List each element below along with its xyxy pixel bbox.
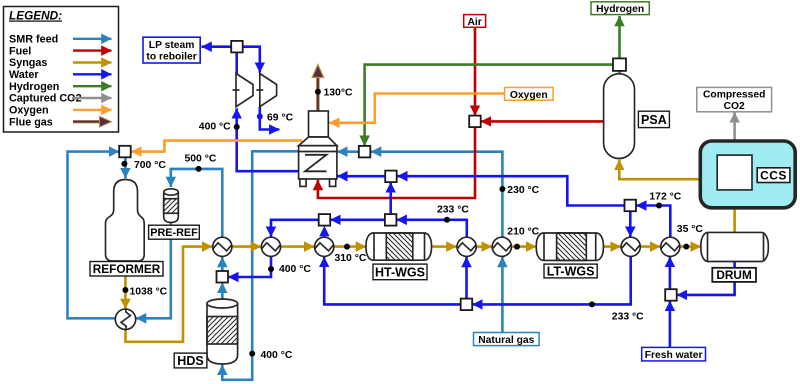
svg-text:Flue gas: Flue gas [9, 116, 53, 128]
SQUARES [119, 41, 677, 310]
node 230C [499, 186, 505, 192]
mid arrow into H2 join square [371, 146, 382, 157]
wire drum bottom to FW square [677, 262, 735, 295]
svg-text:Syngas: Syngas [9, 57, 47, 69]
svg-text:Hydrogen: Hydrogen [9, 81, 59, 93]
svg-text:PRE-REF: PRE-REF [150, 227, 198, 239]
mid arrow into square C [397, 171, 408, 182]
svg-text:230 °C: 230 °C [507, 185, 539, 196]
heat exchanger HXg below reformer [115, 309, 135, 329]
heat exchanger HX2 [261, 237, 280, 256]
heat exchanger HXf [661, 237, 680, 256]
temperature texts [130, 87, 704, 361]
DRUM vessel [701, 232, 768, 261]
wire NG up through 230C to furnace inlet [337, 152, 502, 237]
wire mix square to HX1 [221, 257, 224, 271]
node square B [385, 214, 397, 226]
heat exchanger HXc [457, 237, 476, 256]
wire air down to mix square [474, 28, 477, 116]
svg-text:130°C: 130°C [324, 87, 353, 98]
svg-text:LP steam: LP steam [149, 40, 195, 51]
PSA vessel [604, 74, 635, 159]
node square 172C [625, 200, 637, 212]
wire HXg left up to 700C square [68, 152, 120, 319]
wire HXc top to square B [397, 220, 467, 237]
wire turbine2 out 69C [260, 107, 280, 130]
node 700C [121, 161, 127, 167]
svg-text:Captured CO2: Captured CO2 [9, 93, 82, 105]
wire reformer outlet to HXg [124, 261, 127, 309]
HDS vessel [207, 304, 238, 365]
svg-text:310 °C: 310 °C [335, 253, 367, 264]
svg-text:35 °C: 35 °C [677, 224, 704, 235]
furnace foot right [330, 179, 336, 186]
wire boiler steam out to turbine1 [237, 108, 299, 171]
node 69C blue [257, 114, 263, 120]
svg-text:LT-WGS: LT-WGS [547, 264, 595, 278]
node square steam-feed mix [217, 271, 229, 283]
svg-text:700 °C: 700 °C [134, 160, 166, 171]
node square feed-oxygen mix 700C [119, 146, 131, 158]
label HDS [174, 353, 207, 368]
wire HX2 bottom to mix square [228, 257, 271, 277]
svg-text:Natural gas: Natural gas [478, 335, 534, 346]
svg-text:400 °C: 400 °C [279, 264, 311, 275]
svg-text:PSA: PSA [641, 113, 667, 127]
label Hydrogen [591, 2, 649, 15]
wire HDS top to mix square [221, 283, 224, 300]
wire HX1 to HX2 [232, 245, 261, 248]
node 400C blowdown [268, 266, 274, 272]
reformer vessel [106, 180, 145, 262]
furnace foot left [300, 179, 306, 186]
legend arrow Syngas [73, 61, 112, 63]
wire oxygen to 700C square [131, 141, 302, 152]
wire HXe bottom 233C to water square [472, 257, 630, 305]
wire HXd to LT-WGS [512, 245, 537, 248]
wire DRUM top to CCS [733, 190, 736, 232]
wire fresh water to FW square [669, 301, 672, 348]
wire HXg to HX1 syngas [126, 247, 213, 342]
node square 233C water split [461, 299, 473, 311]
wire flue gas up from stack [316, 77, 320, 111]
furnace stack [309, 111, 329, 137]
svg-text:69 °C: 69 °C [267, 112, 294, 123]
wire natural gas to HXd [501, 257, 504, 333]
wire PSA top to hydrogen square [618, 71, 621, 74]
wire 172C square down to HXe [629, 211, 632, 237]
svg-text:Compressed: Compressed [703, 90, 765, 101]
svg-text:172 °C: 172 °C [649, 192, 681, 203]
furnace coil Z [305, 155, 327, 172]
node 400C steam [234, 124, 240, 130]
svg-text:Fresh water: Fresh water [645, 350, 703, 361]
svg-text:REFORMER: REFORMER [93, 262, 161, 276]
wire HX2 to HX3 [281, 245, 314, 248]
label LT-WGS [544, 264, 597, 278]
pre-reformer vessel [164, 192, 179, 222]
label PRE-REF [149, 225, 200, 239]
node square air-fuel mix [469, 116, 481, 128]
wire HXe to HXf [641, 245, 661, 248]
wire fuel to furnace bottom [318, 127, 475, 198]
node 400C HDS feed [249, 351, 255, 357]
svg-text:Air: Air [467, 17, 481, 28]
svg-text:SMR feed: SMR feed [9, 34, 58, 46]
wire LP square to LP steam box [202, 45, 232, 48]
heat exchanger HXd [492, 237, 511, 256]
node 233C lower [589, 301, 595, 307]
wire CCS to compressed CO2 [733, 112, 736, 155]
svg-text:LEGEND:: LEGEND: [9, 9, 62, 23]
node square hydrogen split [613, 58, 626, 71]
wire hydrogen recycle to H2 square [365, 65, 613, 146]
svg-text:to reboiler: to reboiler [146, 52, 196, 63]
svg-text:400 °C: 400 °C [199, 122, 231, 133]
LEGEND [4, 7, 119, 133]
legend arrow Oxygen [73, 109, 112, 111]
furnace body [299, 146, 337, 179]
svg-text:DRUM: DRUM [716, 268, 752, 282]
LT-WGS vessel [536, 233, 603, 260]
svg-text:CCS: CCS [760, 169, 787, 183]
wire LT-WGS to HXe [603, 245, 620, 248]
node square fresh water join [665, 289, 677, 301]
turbine T2 [260, 74, 277, 107]
node square LP steam split [231, 41, 243, 53]
CCS unit [700, 141, 795, 208]
HT-WGS vessel [366, 233, 432, 260]
legend box [4, 7, 119, 133]
wire PRE-REF down to HXg [136, 222, 171, 318]
node 1038C [122, 287, 128, 293]
svg-text:500 °C: 500 °C [185, 153, 217, 164]
node square C boiler feed [385, 171, 397, 183]
label HT-WGS [373, 264, 427, 280]
furnace hood trapezoid [299, 137, 337, 146]
node 35C [683, 244, 689, 250]
svg-text:Fuel: Fuel [9, 45, 31, 57]
label LP steam to reboiler [143, 37, 200, 63]
label Compressed CO2 [697, 87, 772, 112]
svg-text:233 °C: 233 °C [612, 311, 644, 322]
wire PSA purge to air square [481, 120, 604, 123]
label REFORMER [90, 262, 163, 277]
node 233C upper [444, 217, 450, 223]
legend arrow Captured CO2 [72, 97, 112, 99]
wire HXf to DRUM [680, 245, 701, 248]
svg-text:CO2: CO2 [724, 101, 745, 112]
heat exchanger HX3 [315, 237, 334, 256]
wire hydrogen square to hydrogen box [618, 16, 621, 58]
svg-text:Water: Water [9, 69, 39, 81]
svg-text:1038 °C: 1038 °C [130, 286, 168, 297]
svg-text:Hydrogen: Hydrogen [596, 4, 644, 15]
node square A [319, 214, 331, 226]
legend arrow Flue gas [73, 120, 100, 123]
svg-text:210 °C: 210 °C [507, 227, 539, 238]
node 210C [514, 244, 520, 250]
svg-text:400 °C: 400 °C [261, 350, 293, 361]
node 310C [344, 244, 350, 250]
svg-text:HDS: HDS [177, 354, 203, 368]
wire HX3 to HT-WGS [334, 245, 366, 248]
wire square A to HX2 top [271, 220, 319, 237]
wire LP square to turbine2 [243, 47, 260, 73]
wire oxygen to furnace stack [329, 94, 504, 123]
wire 700C square down to reformer [124, 157, 127, 178]
wire HX3 top to square A [323, 236, 326, 239]
legend arrow Water [73, 73, 112, 75]
svg-text:233 °C: 233 °C [437, 204, 469, 215]
wire CCS to PSA bottom [619, 160, 717, 179]
heat exchanger HXe [621, 237, 640, 256]
label Fresh water [642, 347, 706, 361]
wire FW square to HXf [669, 257, 672, 290]
wire water square to HX3 bottom [324, 257, 461, 305]
svg-text:HT-WGS: HT-WGS [375, 266, 425, 280]
label PSA [638, 111, 669, 127]
heat exchanger HX1 [213, 237, 232, 256]
label Natural gas [474, 333, 540, 347]
label Air [464, 15, 486, 28]
legend arrow Hydrogen [73, 85, 112, 87]
wire water square up to HXc bottom [465, 257, 468, 299]
wire furnace out to HDS [222, 151, 298, 379]
label CCS [757, 168, 790, 183]
wire HXc to HXd [477, 245, 492, 248]
node 130C flue [315, 89, 321, 95]
svg-text:Oxygen: Oxygen [9, 105, 49, 117]
legend arrow SMR feed [73, 38, 112, 40]
node 172C [656, 203, 662, 209]
label DRUM [712, 268, 756, 282]
node 500C [196, 166, 202, 172]
wire HXf top to 172C square [636, 206, 670, 237]
wire turbine1 to LP square [235, 53, 238, 74]
wire square B up to square C [389, 182, 392, 214]
wire HT-WGS to HXc [432, 245, 457, 248]
wire 172C square to boiler feed line into furnace [337, 176, 624, 205]
svg-text:Oxygen: Oxygen [510, 90, 548, 101]
wire HX1 to 500C to PRE-REF [171, 169, 223, 237]
legend arrow Fuel [73, 49, 112, 51]
wire square B to square A [330, 219, 385, 222]
turbine T1 [236, 74, 253, 107]
label Oxygen [505, 88, 553, 101]
node square H2 recycle join [359, 146, 371, 158]
